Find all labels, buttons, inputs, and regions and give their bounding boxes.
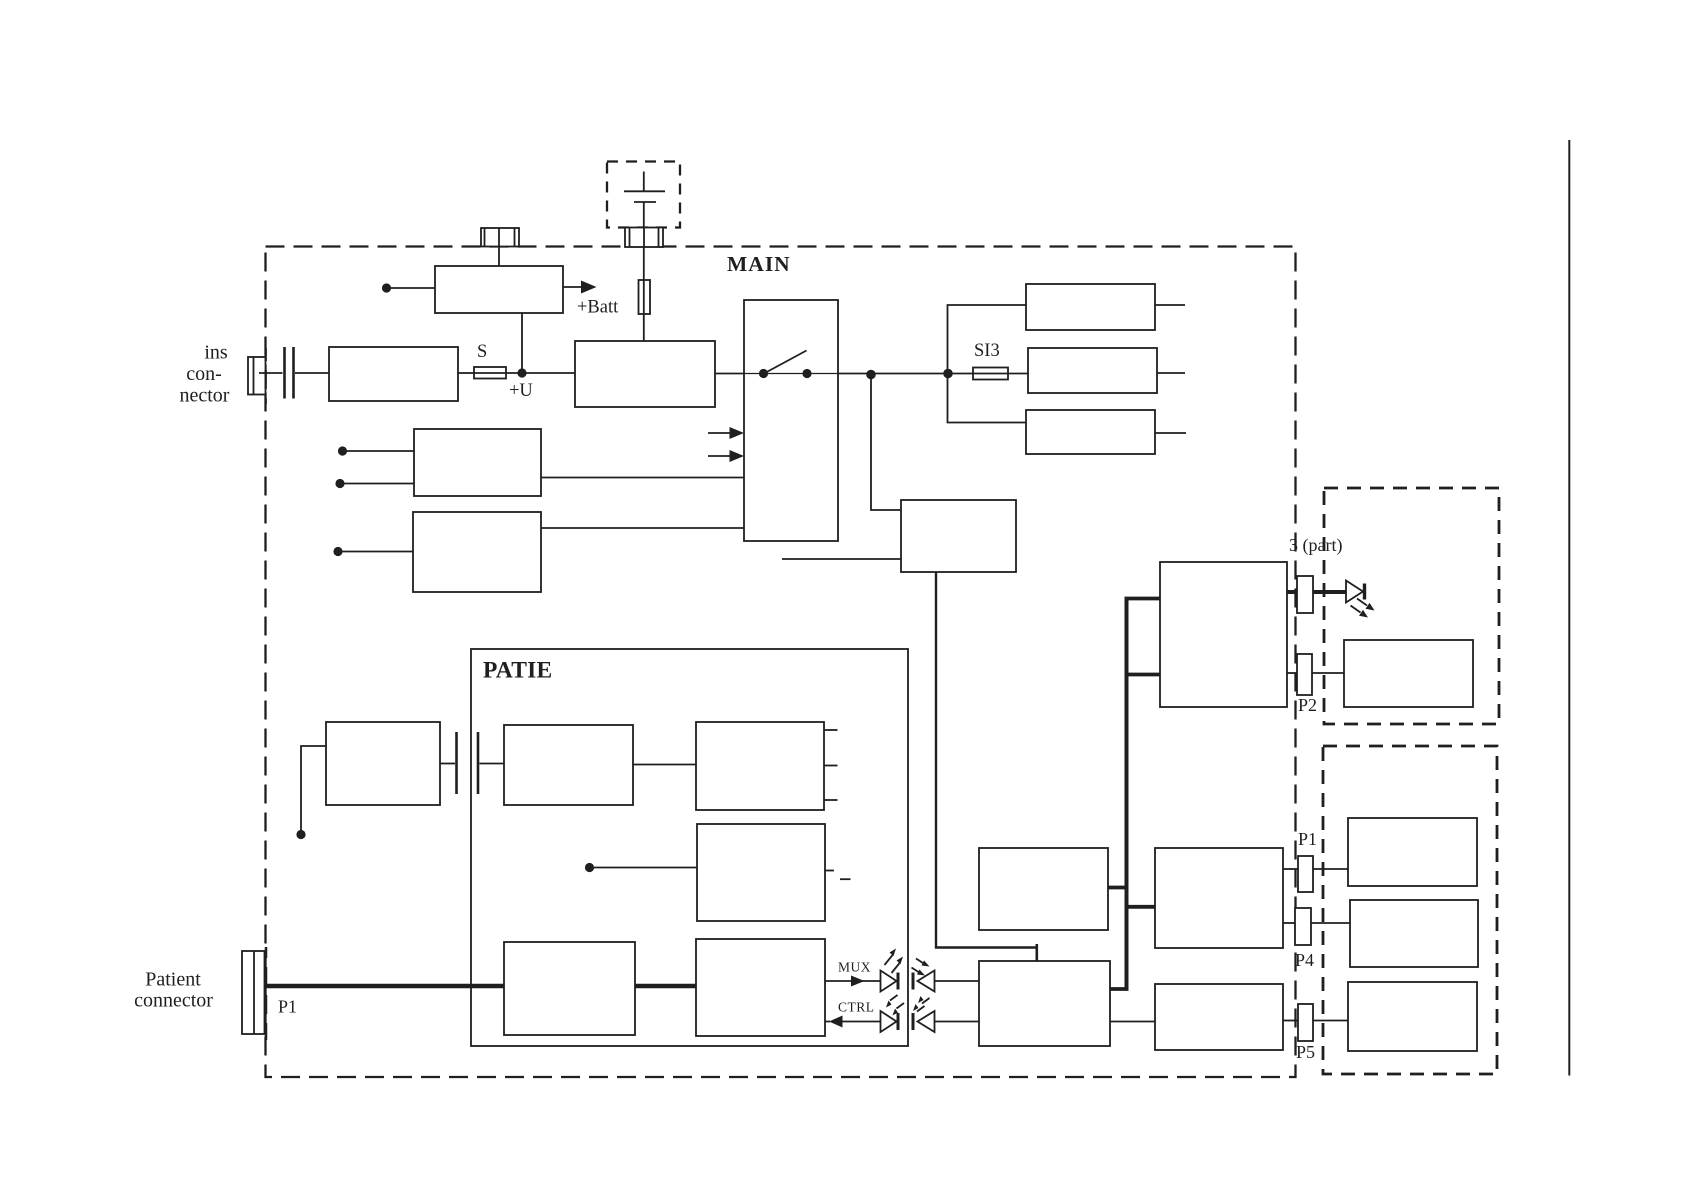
node +U xyxy=(517,368,526,377)
node dot left of PB3 xyxy=(585,863,594,872)
optocoupler LED (MUX, transmit) xyxy=(881,949,904,992)
node dot left of charger xyxy=(382,283,391,292)
box BB4 xyxy=(1155,984,1283,1050)
connector X1 (top, on MAIN border) xyxy=(481,228,519,247)
box input filter xyxy=(329,347,458,401)
svg-text:3 (part): 3 (part) xyxy=(1289,535,1342,556)
connector P5 xyxy=(1298,1004,1313,1041)
bus tap to box BB2 xyxy=(1125,905,1156,909)
wire PA to capacitor xyxy=(440,763,455,765)
svg-text:PATIE: PATIE xyxy=(483,658,552,684)
wire BB4 to connector P5 xyxy=(1283,1020,1298,1022)
optocoupler photodiode (CTRL, receive) xyxy=(881,995,905,1032)
box display driver (big right) xyxy=(1160,562,1287,707)
svg-text:P5: P5 xyxy=(1296,1042,1315,1062)
box PB2 xyxy=(696,722,824,810)
wire through switch box xyxy=(744,373,838,375)
svg-text:connector: connector xyxy=(134,990,213,1012)
box control logic A xyxy=(414,429,541,496)
svg-text:+U: +U xyxy=(509,381,533,401)
svg-text:P1: P1 xyxy=(1298,829,1317,849)
wire A2 xyxy=(343,483,415,485)
svg-text:S: S xyxy=(477,342,487,362)
switch S1 blade xyxy=(764,351,807,374)
box regulator 1 xyxy=(1026,284,1155,330)
arrow control input 2 into switch box xyxy=(708,450,744,462)
stub PB2 pin 1 xyxy=(824,729,838,731)
thick bus M1 to processor box xyxy=(936,572,1037,948)
box PB3 xyxy=(697,824,825,921)
box control logic B xyxy=(413,512,541,592)
node dot input A2 xyxy=(335,479,344,488)
node dot input B1 xyxy=(333,547,342,556)
box PB4 xyxy=(504,942,635,1035)
svg-text:Patient: Patient xyxy=(145,968,201,990)
wire node A down to box M1 xyxy=(871,375,901,511)
wire capacitor to PB1 xyxy=(480,763,505,765)
wire fuse S to power supply xyxy=(506,372,575,374)
wire node to PB3 xyxy=(592,867,697,869)
box BB1 xyxy=(979,848,1108,930)
wire filter to fuse S xyxy=(458,372,474,374)
switch S1 contacts xyxy=(759,369,768,378)
label Patient connector xyxy=(134,968,213,1011)
bus tap from box BB1 xyxy=(1108,886,1129,890)
wire logic B to switch box xyxy=(541,527,744,529)
MAIN dashed enclosure border xyxy=(266,247,1296,1078)
svg-text:MUX: MUX xyxy=(838,960,871,975)
dashed enclosure 3 (part) top xyxy=(1324,488,1499,724)
box BB3 xyxy=(979,961,1110,1046)
wire A1 xyxy=(345,450,414,452)
wire B1 xyxy=(341,551,414,553)
connector P2 xyxy=(1297,654,1312,695)
wire regulator 2 output xyxy=(1157,372,1185,374)
svg-text:P1: P1 xyxy=(278,997,297,1017)
bus tap to display box pin 1 xyxy=(1125,597,1161,601)
fuse S xyxy=(474,367,506,379)
wire SI3 to regulator 2 xyxy=(1008,373,1028,375)
fuse F1 xyxy=(639,280,651,314)
thick wire connector to LED xyxy=(1313,590,1346,594)
stub PB2 pin 2 xyxy=(824,765,838,767)
connector ins (on MAIN border) xyxy=(248,357,266,395)
connector LED output xyxy=(1297,576,1313,613)
box R2 xyxy=(1348,818,1477,886)
bus tap to display box pin 2 xyxy=(1125,673,1161,677)
optocoupler LED (CTRL, transmit) xyxy=(913,996,935,1032)
svg-text:P4: P4 xyxy=(1295,950,1314,970)
wire capacitor to filter box xyxy=(295,372,329,374)
wire CTRL LED to box BB3 xyxy=(935,1021,980,1023)
battery dashed enclosure xyxy=(607,162,680,228)
svg-text:+Batt: +Batt xyxy=(577,298,619,318)
svg-text:P2: P2 xyxy=(1298,695,1317,715)
wire CTRL with arrow into PB5 xyxy=(825,1016,881,1028)
wire regulator 1 output xyxy=(1155,304,1185,306)
wire battery to fuse xyxy=(643,247,645,280)
wire P4 to box R3 xyxy=(1311,922,1350,924)
wire charger bottom to +U node xyxy=(521,313,523,373)
node A junction xyxy=(866,370,876,380)
wire regulator 3 output xyxy=(1155,432,1186,434)
capacitor C1 (feedthrough) xyxy=(285,347,294,399)
box power supply xyxy=(575,341,715,407)
box PA (left of patient part) xyxy=(326,722,440,805)
PATIE enclosure box xyxy=(471,649,908,1046)
wire MUX with arrow to LED xyxy=(825,976,881,987)
fuse SI3 xyxy=(973,368,1008,380)
wire P5 to box R4 xyxy=(1313,1020,1348,1022)
bus end tick into box BB3 xyxy=(1036,944,1039,962)
battery B1 symbol xyxy=(624,172,665,228)
svg-text:ins: ins xyxy=(204,341,228,363)
box switch S1 xyxy=(744,300,838,541)
arrow control input 1 into switch box xyxy=(708,427,744,439)
box M1 interface xyxy=(901,500,1016,572)
wire fuse to power supply box xyxy=(643,314,645,341)
svg-text:MAIN: MAIN xyxy=(727,252,791,276)
wire BB2 to connector P1 xyxy=(1283,868,1298,870)
thick wire display box to LED connector xyxy=(1287,590,1297,594)
wire node B to regulator 1 xyxy=(948,305,1027,374)
box regulator 2 xyxy=(1028,348,1157,393)
wire connector X1 to charger box xyxy=(498,247,500,267)
capacitor C2 (isolation) xyxy=(457,732,479,794)
box BB2 xyxy=(1155,848,1283,948)
dashed enclosure bottom right xyxy=(1323,746,1497,1074)
wire switch to node A xyxy=(838,373,973,375)
svg-text:SI3: SI3 xyxy=(974,341,1000,361)
box charger xyxy=(435,266,563,313)
vertical separator line xyxy=(1568,140,1570,1076)
thick patient bus P1 xyxy=(264,984,504,989)
svg-text:con-: con- xyxy=(186,363,222,385)
svg-text:CTRL: CTRL xyxy=(838,1000,875,1015)
LED indicator xyxy=(1346,581,1375,618)
MAIN border dashes over patient connector xyxy=(265,947,268,1040)
wire node B to regulator 3 xyxy=(948,374,1027,423)
wire stub left of M1 xyxy=(782,558,901,560)
wire PB1 to PB2 xyxy=(633,764,696,766)
box R3 xyxy=(1350,900,1478,967)
connector P4 xyxy=(1295,908,1311,945)
wire logic A to switch box xyxy=(541,477,744,479)
node dot below PA xyxy=(296,830,305,839)
wire photodiode to box BB3 xyxy=(935,980,980,982)
optocoupler photodiode (MUX, receive) xyxy=(912,959,935,992)
wire P1 to box R2 xyxy=(1313,868,1348,870)
wire display box to connector P2 xyxy=(1287,672,1297,674)
box R4 xyxy=(1348,982,1477,1051)
box PB1 xyxy=(504,725,633,805)
label ins connector xyxy=(180,341,230,406)
connector patient (on MAIN border) xyxy=(242,951,265,1034)
thick supply bus (right) xyxy=(1125,597,1129,990)
box PB5 xyxy=(696,939,825,1036)
wire BB3 to BB4 xyxy=(1110,1021,1155,1023)
connector P1 xyxy=(1298,856,1313,892)
node B junction xyxy=(943,369,953,379)
minus mark xyxy=(840,878,851,880)
wire node to charger xyxy=(389,287,435,289)
wire P2 to box R1 xyxy=(1312,672,1344,674)
thick wire PB4 to PB5 xyxy=(635,984,696,989)
stub PB3 output xyxy=(825,870,834,872)
wire power supply to switch box xyxy=(715,373,744,375)
arrow +Batt output xyxy=(563,281,597,294)
bus tap from box BB3 xyxy=(1110,987,1129,991)
wire ins connector to capacitor xyxy=(259,372,283,374)
wire BB2 to connector P4 xyxy=(1283,922,1295,924)
box R1 xyxy=(1344,640,1473,707)
MAIN border dashes over ins connector xyxy=(265,348,267,404)
box regulator 3 xyxy=(1026,410,1155,454)
svg-text:nector: nector xyxy=(180,384,230,406)
node dot input A1 xyxy=(338,446,347,455)
stub PB2 pin 3 xyxy=(824,799,838,801)
connector X2 (battery) xyxy=(625,228,663,248)
wire PA to node dot xyxy=(301,746,326,831)
